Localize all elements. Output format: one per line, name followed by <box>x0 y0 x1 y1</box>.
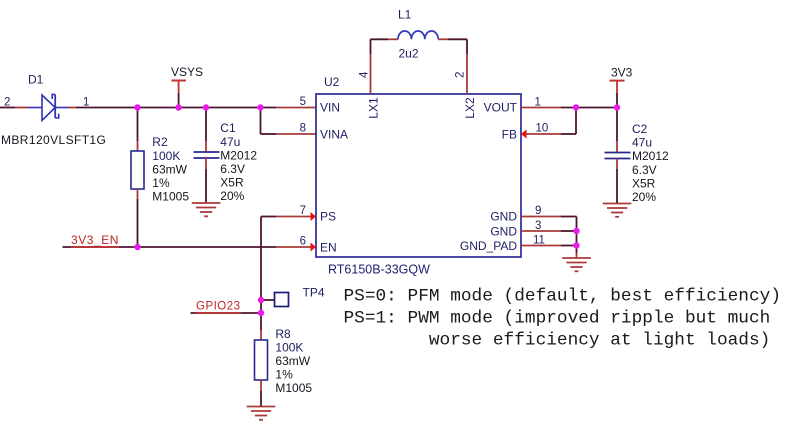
svg-text:6.3V: 6.3V <box>220 162 245 176</box>
svg-text:X5R: X5R <box>220 176 244 190</box>
resistor R2 <box>131 151 144 189</box>
svg-text:3: 3 <box>535 220 541 232</box>
svg-text:11: 11 <box>533 235 545 247</box>
wire C2 bottom <box>616 159 618 204</box>
power symbol VSYS <box>172 81 187 108</box>
wire PS horizontal <box>261 216 276 218</box>
wire C1 branch vertical <box>205 108 207 153</box>
svg-text:D1: D1 <box>28 73 44 87</box>
wire R8 bottom <box>260 380 262 407</box>
svg-text:FB: FB <box>502 128 517 142</box>
svg-text:LX2: LX2 <box>463 97 477 119</box>
resistor R2 labels <box>152 135 189 203</box>
svg-text:100K: 100K <box>275 340 303 354</box>
svg-text:63mW: 63mW <box>275 354 310 368</box>
svg-text:VINA: VINA <box>320 128 348 142</box>
pin 7 PS stub <box>276 216 316 218</box>
svg-text:C2: C2 <box>632 122 648 136</box>
ground below GND pins <box>562 258 591 271</box>
resistor R8 labels <box>275 327 312 395</box>
op IC U2 box <box>316 94 521 257</box>
pin 10 FB stub <box>521 133 561 135</box>
resistor R8 <box>255 340 268 380</box>
svg-text:RT6150B-33GQW: RT6150B-33GQW <box>328 263 430 277</box>
junction node VSYS-C1 <box>203 104 209 110</box>
svg-text:PS: PS <box>320 210 336 224</box>
junction node VSYS-power <box>175 104 181 110</box>
capacitor C2 <box>605 153 631 159</box>
svg-text:X5R: X5R <box>632 176 656 190</box>
svg-text:8: 8 <box>300 123 306 135</box>
svg-text:M1005: M1005 <box>275 381 312 395</box>
wire VOUT to 3V3 <box>561 107 617 109</box>
svg-text:1%: 1% <box>152 176 170 190</box>
junction node 3V3-C2 <box>614 104 620 110</box>
svg-text:20%: 20% <box>632 190 656 204</box>
wire EN net 3V3_EN row <box>63 246 277 248</box>
wire C1 bottom <box>205 158 207 203</box>
svg-text:GPIO23: GPIO23 <box>196 301 241 313</box>
note text PS modes <box>344 287 782 351</box>
capacitor C1 <box>194 152 220 158</box>
pin 8 VINA stub <box>276 133 316 135</box>
svg-text:PS=1: PWM mode (improved rippl: PS=1: PWM mode (improved ripple but much <box>344 309 771 329</box>
wire PS vertical from GPIO23 <box>260 217 262 314</box>
wire C2 branch vertical <box>616 108 618 153</box>
ground below R8 <box>247 407 276 420</box>
svg-text:4: 4 <box>359 71 371 78</box>
svg-text:6.3V: 6.3V <box>632 163 657 177</box>
wire FB branch <box>561 108 576 135</box>
svg-text:M2012: M2012 <box>220 148 257 162</box>
svg-text:6: 6 <box>300 236 306 248</box>
wire R8 top <box>260 313 262 340</box>
svg-text:3V3: 3V3 <box>611 66 633 80</box>
svg-text:7: 7 <box>300 205 306 217</box>
svg-text:U2: U2 <box>324 75 340 89</box>
pin 9 GND stub <box>521 216 561 218</box>
junction node GND3 <box>573 228 579 234</box>
svg-text:47u: 47u <box>632 136 652 150</box>
wire R2 bottom to EN net <box>137 189 139 247</box>
test point TP4 <box>275 293 289 307</box>
svg-text:worse efficiency at light load: worse efficiency at light loads) <box>344 331 771 351</box>
wire inductor top left <box>371 38 399 40</box>
svg-text:63mW: 63mW <box>152 162 187 176</box>
junction node EN-R2 <box>134 244 140 250</box>
pin 2 LX2 stub <box>466 39 468 94</box>
junction node VSYS-R2 <box>134 104 140 110</box>
svg-text:R2: R2 <box>152 135 168 149</box>
wire GPIO23 row <box>191 312 262 314</box>
svg-text:GND: GND <box>490 224 517 238</box>
svg-text:1: 1 <box>535 97 541 109</box>
pin 11 GND_PAD stub <box>521 245 561 247</box>
pin 3 GND stub <box>521 230 561 232</box>
svg-text:R8: R8 <box>275 327 291 341</box>
svg-text:1%: 1% <box>275 368 293 382</box>
pin 1 VOUT stub <box>521 107 561 109</box>
svg-text:2: 2 <box>4 97 10 109</box>
pin 4 LX1 stub <box>370 39 372 94</box>
ground below C1 <box>192 203 221 216</box>
svg-text:C1: C1 <box>220 121 236 135</box>
svg-text:3V3_EN: 3V3_EN <box>71 233 119 247</box>
wire R2 branch vertical <box>137 108 139 152</box>
pin 5 VIN stub <box>276 107 316 109</box>
wire VSYS main horizontal <box>0 107 276 109</box>
svg-text:10: 10 <box>536 123 549 135</box>
svg-text:LX1: LX1 <box>367 97 381 119</box>
svg-text:2u2: 2u2 <box>399 47 419 61</box>
junction node GPIO23-R8 <box>258 310 264 316</box>
FB input arrow <box>521 130 527 139</box>
junction node GND11 <box>573 242 579 248</box>
svg-text:100K: 100K <box>152 149 180 163</box>
svg-text:1: 1 <box>83 97 89 109</box>
svg-text:GND: GND <box>490 210 517 224</box>
wire TP4 branch <box>261 299 275 301</box>
diode D1 <box>15 94 76 120</box>
ground below C2 <box>603 204 632 217</box>
svg-text:M1005: M1005 <box>152 190 189 204</box>
svg-text:47u: 47u <box>220 135 240 149</box>
power symbol 3V3 <box>610 81 625 108</box>
svg-text:GND_PAD: GND_PAD <box>460 239 517 253</box>
svg-text:20%: 20% <box>220 189 244 203</box>
PS input arrow <box>311 212 317 221</box>
pin 6 EN stub <box>276 246 316 248</box>
svg-text:M2012: M2012 <box>632 149 669 163</box>
svg-text:PS=0: PFM mode (default, best: PS=0: PFM mode (default, best efficiency… <box>344 287 782 307</box>
junction node 3V3-FB <box>573 104 579 110</box>
svg-text:VIN: VIN <box>320 101 340 115</box>
svg-text:VSYS: VSYS <box>171 65 203 79</box>
wire inductor top right <box>438 38 467 40</box>
wire GND pins to ground <box>561 217 577 259</box>
svg-text:5: 5 <box>300 96 306 108</box>
svg-text:2: 2 <box>455 72 467 78</box>
svg-text:L1: L1 <box>398 8 412 22</box>
svg-text:EN: EN <box>320 241 337 255</box>
capacitor C2 labels <box>632 122 669 204</box>
svg-text:9: 9 <box>535 205 541 217</box>
junction node VSYS-VINA <box>257 104 263 110</box>
svg-text:MBR120VLSFT1G: MBR120VLSFT1G <box>1 133 106 147</box>
EN input arrow <box>311 243 317 252</box>
svg-text:TP4: TP4 <box>303 286 325 300</box>
junction node TP4 <box>258 297 264 303</box>
capacitor C1 labels <box>220 121 257 203</box>
inductor L1 <box>398 31 438 39</box>
wire VINA branch <box>261 108 277 135</box>
svg-text:VOUT: VOUT <box>484 101 518 115</box>
